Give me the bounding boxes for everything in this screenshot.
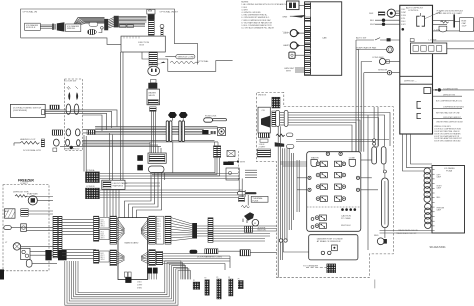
fuse F2 capsule: [238, 191, 246, 195]
svg-text:2 WHT: 2 WHT: [401, 12, 406, 14]
relay K4: [335, 172, 346, 177]
relay K6: [335, 184, 346, 189]
door harness connectors: [205, 249, 218, 254]
relay K2: [335, 161, 346, 166]
capsule pair row1: [66, 104, 71, 114]
splice dot WHT: [382, 23, 385, 26]
svg-text:TO ICEMAKER: TO ICEMAKER: [303, 265, 318, 268]
defrost control board (top right): [356, 5, 474, 142]
svg-text:WHT 2: WHT 2: [101, 255, 105, 257]
svg-text:RIGHT: RIGHT: [437, 186, 442, 188]
wire fan J2: [117, 218, 125, 241]
hex stubs and drop wire: [171, 118, 173, 121]
svg-text:COND FAN: COND FAN: [372, 56, 384, 59]
svg-text:OPTIONAL I/M KIT: OPTIONAL I/M KIT: [160, 10, 179, 13]
freezer wires to strips: [11, 197, 57, 264]
svg-text:7. BRN COMPRESSOR RUN CAP: 7. BRN COMPRESSOR RUN CAP: [241, 19, 271, 22]
thermal fuse box: [251, 196, 268, 202]
svg-text:BOX: BOX: [140, 45, 145, 47]
svg-text:BLK 1: BLK 1: [101, 253, 105, 255]
pin connector mid: [214, 146, 217, 158]
connector header J1b: [165, 216, 171, 244]
short wires exiting left: [245, 170, 257, 177]
bottom connector blocks row: [193, 277, 243, 299]
svg-text:CIRCUIT AT DEFROST: CIRCUIT AT DEFROST: [443, 116, 461, 119]
svg-text:LEFT: LEFT: [437, 174, 441, 176]
bundle to second bar: [108, 17, 114, 28]
svg-text:BLU 6: BLU 6: [101, 233, 105, 235]
svg-text:COMPRESSOR RUN WDG: COMPRESSOR RUN WDG: [443, 107, 465, 109]
semicircle component: [379, 58, 385, 64]
svg-text:P5: P5: [238, 278, 240, 280]
relay K5: [316, 184, 327, 189]
connector: [21, 209, 29, 217]
svg-text:GRY 8: GRY 8: [101, 237, 105, 239]
mounting plate box: [66, 24, 81, 32]
band to main board: [62, 220, 96, 259]
notes list: [241, 2, 288, 33]
capsule below striped box: [149, 166, 165, 173]
svg-text:OPTIONAL: OPTIONAL: [198, 60, 210, 63]
air duct box hatched: [5, 209, 16, 218]
far right vertical strip: [208, 218, 213, 243]
wire drop c: [109, 133, 111, 180]
wire bundle band: [74, 18, 105, 25]
svg-text:ORN 7: ORN 7: [101, 235, 105, 237]
horizontal wire band center: [60, 127, 218, 147]
service cord capsule: [176, 55, 195, 59]
grommet label capsule on band: [89, 22, 98, 26]
pin blocks along left edge: [305, 3, 311, 74]
connector block: [239, 197, 245, 202]
svg-text:CAB: CAB: [322, 37, 327, 40]
svg-text:RED 3: RED 3: [157, 223, 161, 225]
svg-text:WHT: WHT: [370, 24, 376, 26]
lamp circle in box: [218, 128, 226, 136]
solenoid dark row + box: [223, 162, 234, 165]
run capacitor C1 box: [460, 18, 474, 32]
power cord striped: [149, 52, 157, 66]
svg-text:AIR: AIR: [5, 210, 9, 213]
svg-text:FRESH FOOD: FRESH FOOD: [65, 149, 80, 151]
svg-text:AUTO SW: AUTO SW: [356, 37, 367, 40]
wire riser b: [85, 136, 87, 172]
junction box: [121, 36, 165, 52]
lower striped box: [148, 153, 166, 163]
relay K7: [316, 196, 327, 201]
connector assembly above-left: [287, 1, 299, 10]
svg-text:DEF: DEF: [369, 13, 374, 15]
middle-left : door activated switch area: [10, 52, 123, 180]
svg-text:BLK: BLK: [370, 20, 375, 22]
twin pads bottom right: [147, 268, 152, 274]
svg-text:P2: P2: [205, 278, 207, 280]
svg-text:FREEZER: FREEZER: [18, 179, 34, 183]
ice maker module box: [25, 23, 41, 30]
light wedges: [68, 92, 70, 100]
svg-text:P1: P1: [193, 280, 195, 282]
junction dot: [70, 146, 73, 149]
keyhole lamp 1: [290, 29, 297, 36]
svg-text:RED 3: RED 3: [101, 224, 105, 226]
svg-text:CUBE: CUBE: [349, 158, 356, 160]
svg-text:DOOR ACTIVATED SWITCH: DOOR ACTIVATED SWITCH: [13, 106, 42, 109]
svg-text:SENSOR: SENSOR: [378, 70, 388, 72]
freezer lamp: [13, 243, 20, 250]
left lower group: [94, 250, 99, 263]
wire band from bar to plug area: [119, 16, 147, 26]
vertical bundle: [239, 176, 248, 205]
dark plug: [57, 22, 65, 31]
top circles: [326, 152, 329, 155]
cabinet harness box (tall): [282, 1, 341, 75]
svg-text:BLK 1: BLK 1: [101, 220, 105, 222]
capsule bottom: [26, 260, 32, 268]
leader line from note: [424, 12, 441, 20]
solenoid cap dark: [148, 83, 157, 89]
svg-text:PNK 9: PNK 9: [157, 238, 161, 240]
auger motor M1: [252, 219, 259, 226]
svg-text:YEL 5: YEL 5: [101, 231, 105, 233]
evap fan motor: [28, 196, 37, 205]
svg-text:CONN B: CONN B: [86, 186, 95, 188]
wire board to lid pin1: [411, 134, 433, 164]
relay contact sub-box: [411, 43, 447, 54]
svg-text:FUSE: FUSE: [252, 200, 258, 202]
freezer compartment: [3, 179, 57, 271]
wire band y139-147: [82, 139, 214, 141]
svg-text:GROUND: GROUND: [150, 64, 160, 66]
lower section circles: [341, 208, 356, 211]
small gray tick below border: [374, 280, 376, 289]
splice dot BLK: [382, 19, 385, 22]
fan to dark bar: [171, 218, 192, 241]
striped connector above wires: [50, 105, 59, 109]
wire board to lid pin2: [407, 134, 433, 168]
board pin dot: [402, 28, 405, 31]
relay K8: [335, 196, 346, 201]
svg-text:OPTIONAL I/M: OPTIONAL I/M: [23, 10, 38, 13]
center cluster: thermal fuse / auger motor: [197, 176, 268, 258]
connector assembly: [272, 111, 276, 126]
pinout label box J1: [156, 216, 163, 244]
pins below: [125, 142, 165, 218]
wires row1: [14, 52, 123, 180]
svg-text:YEL 5: YEL 5: [157, 228, 161, 230]
svg-text:ORN 7: ORN 7: [157, 233, 161, 235]
wire traced black: [380, 232, 433, 234]
left upper group: [94, 216, 99, 241]
resistor R2 zigzag: [441, 21, 449, 23]
svg-text:2 WHT: 2 WHT: [259, 146, 266, 148]
dark hex grommet 2: [179, 112, 188, 118]
vertical bundle down to board: [104, 189, 119, 217]
cup symbols: [311, 160, 317, 167]
svg-text:VALVE: VALVE: [148, 94, 155, 97]
ground arrow: [160, 62, 166, 64]
defrost stat: [21, 224, 27, 232]
keyhole lamp 2: [290, 42, 297, 49]
door switch box: [21, 248, 30, 259]
wire trio: [40, 25, 52, 28]
fan circle pair: [387, 46, 394, 53]
fuse dark capsule: [190, 250, 198, 254]
cable down: [152, 111, 156, 153]
side connector circles: [308, 176, 360, 191]
svg-text:RED: RED: [374, 235, 379, 237]
pin ticks: [432, 170, 435, 231]
lid panel pcba: [396, 166, 464, 250]
svg-text:GRN 4: GRN 4: [101, 259, 105, 261]
resistor zigzag: [241, 205, 250, 208]
inner wire column: [278, 126, 299, 277]
svg-text:MODULE: MODULE: [26, 27, 36, 29]
wire drop to dot pair: [373, 107, 375, 139]
svg-text:AT REAR OF FREEZER: AT REAR OF FREEZER: [317, 240, 341, 243]
relay bracket top: [417, 16, 425, 26]
main board: [94, 216, 214, 289]
svg-text:WHT NEUTRAL SIDE OF LINE: WHT NEUTRAL SIDE OF LINE: [436, 112, 460, 115]
wire drop from junction box a: [120, 52, 122, 180]
door harness connector 2: [240, 250, 250, 256]
svg-text:(DISPENSER): (DISPENSER): [13, 110, 27, 112]
plug striped body: [148, 20, 154, 36]
small rects above junction box: [120, 24, 127, 27]
wire band y126-135: [95, 126, 217, 128]
svg-text:LAMP: LAMP: [283, 44, 289, 47]
compressor sub-box: [309, 235, 358, 260]
switch square: [289, 52, 295, 58]
svg-text:15uF: 15uF: [462, 26, 468, 28]
plug dark cap: [148, 14, 155, 20]
svg-text:BLK COMPRESSOR RELAY COIL: BLK COMPRESSOR RELAY COIL: [436, 100, 462, 103]
relay box side links: [283, 147, 385, 260]
traced labels: [396, 229, 418, 235]
svg-text:WHT: WHT: [286, 70, 292, 72]
svg-text:I/M BOX: I/M BOX: [258, 95, 267, 97]
central water valve column: [125, 79, 167, 217]
svg-text:WHT 2: WHT 2: [101, 222, 105, 224]
fresh food dashed box: [65, 79, 83, 151]
svg-text:WHT 2: WHT 2: [157, 221, 161, 223]
green wire arrow: [290, 15, 306, 18]
svg-text:WHT BLK: WHT BLK: [341, 225, 351, 227]
svg-text:FUSE LINK: FUSE LINK: [205, 116, 217, 118]
harness connector w/ text: [102, 180, 125, 189]
pins below CB: [259, 133, 270, 138]
svg-text:HARNESS: HARNESS: [113, 184, 124, 187]
left pair connectors: [279, 239, 282, 242]
ff dashed divider: [237, 151, 239, 181]
auger motor connector: [245, 226, 253, 232]
grommet oval hatched: [87, 29, 96, 34]
row3: ptc starter chain: [20, 141, 39, 144]
svg-text:DOOR SEAL HTR: DOOR SEAL HTR: [23, 149, 41, 152]
connector J2 header: [110, 216, 117, 244]
door activated switch box: [10, 104, 45, 117]
svg-text:10. GRY AUX ICEMAKER FILL VALV: 10. GRY AUX ICEMAKER FILL VALVE: [241, 27, 274, 30]
switch row: [356, 39, 374, 41]
grid connectors upper-left of main board: [86, 169, 245, 217]
small crossed box: [227, 151, 235, 157]
svg-text:WIRING: WIRING: [67, 28, 75, 30]
svg-text:GRN: GRN: [282, 16, 287, 18]
left side components: [387, 9, 395, 17]
right upper group: [141, 218, 149, 241]
wall plug oval: [148, 66, 160, 75]
heater + small parts: [276, 134, 285, 136]
auger motor switch: [244, 212, 254, 220]
svg-text:WTR: WTR: [240, 162, 245, 164]
buzzer: [124, 272, 127, 277]
CB box with cone: [258, 107, 270, 133]
svg-text:BLU 6: BLU 6: [157, 231, 161, 233]
connector bars pairs on band: [166, 121, 168, 142]
svg-text:LAMP: LAMP: [283, 32, 289, 35]
svg-text:P4: P4: [228, 277, 230, 279]
svg-text:L1 LINE: L1 LINE: [429, 39, 437, 41]
connector pair: [52, 24, 54, 30]
svg-text:M: M: [254, 223, 256, 225]
section border: optional ice maker (top-left): [21, 9, 198, 65]
svg-text:PC CASE: PC CASE: [341, 217, 351, 220]
svg-text:P3: P3: [216, 277, 218, 279]
svg-text:3 ORG: 3 ORG: [401, 15, 407, 17]
bent wire w/ dot: [99, 29, 102, 32]
thermostat capsule: [4, 226, 12, 230]
svg-text:4 YEL: 4 YEL: [401, 18, 405, 20]
freezer harness strips: [45, 216, 96, 260]
svg-text:SD-242LT2001: SD-242LT2001: [430, 246, 447, 249]
wire riser a: [83, 135, 85, 172]
wire drop from junction box b: [122, 52, 124, 180]
connector dot: [383, 170, 386, 173]
fuse F2 pin: [246, 192, 257, 194]
svg-text:GRN 4: GRN 4: [101, 226, 105, 228]
svg-text:EVAP FAN: EVAP FAN: [27, 193, 38, 196]
relay K9: [315, 215, 326, 220]
second dark bar: [114, 16, 119, 28]
wire drop d: [112, 135, 114, 181]
svg-text:BOARD SEE NOTE 4 OF CHART: BOARD SEE NOTE 4 OF CHART: [436, 12, 461, 15]
water valve box: [147, 89, 160, 105]
wire drop to capsule: [374, 107, 378, 147]
svg-text:CONN A: CONN A: [86, 169, 95, 172]
svg-text:ORN HTR FEED DEFROST MODE: ORN HTR FEED DEFROST MODE: [436, 122, 464, 124]
svg-text:DEFROST RTN: DEFROST RTN: [443, 95, 456, 97]
right lower group: [141, 252, 149, 265]
svg-text:HEATER LOOP: HEATER LOOP: [20, 138, 36, 141]
ground zigzag: [170, 61, 199, 64]
svg-text:PCBA: PCBA: [446, 170, 452, 173]
dark blobs left of striped box: [137, 155, 143, 161]
bottom-left page mark: [0, 269, 4, 279]
dispenser panel dashed border: [245, 92, 393, 277]
small circle: [387, 71, 391, 75]
svg-text:FREEZER: FREEZER: [437, 208, 445, 210]
relay K3: [316, 172, 327, 177]
dispenser relay board: [307, 152, 361, 232]
svg-text:DOOR SW: DOOR SW: [66, 81, 78, 83]
row2 components: [52, 130, 62, 135]
nested wire loops bottom: [65, 261, 191, 305]
svg-text:WATER: WATER: [311, 157, 319, 160]
svg-text:1. ALL WIRING SHOWN WITH DOOR: 1. ALL WIRING SHOWN WITH DOOR OPEN AND N…: [241, 3, 288, 6]
dark blob: [202, 130, 208, 134]
pin labels: [401, 9, 407, 26]
svg-text:SERVICE CORD: SERVICE CORD: [178, 56, 195, 58]
dark hex grommet 1: [168, 112, 177, 118]
wires right of grid conns: [99, 174, 244, 198]
terminal grid: [272, 97, 280, 108]
middle cluster: grommets, fuse, ballast: [166, 112, 245, 181]
verticals from control board components: [356, 40, 432, 233]
relay K1: [316, 161, 327, 166]
svg-text:6 B W GRN CHASSIS GROUND: 6 B W GRN CHASSIS GROUND: [434, 140, 461, 143]
relay K10: [315, 223, 326, 228]
wire traced white: [380, 230, 433, 232]
svg-text:6. ORN DEFROST HEATER N.O.: 6. ORN DEFROST HEATER N.O.: [241, 16, 270, 19]
terminal T1: [321, 251, 324, 254]
motor component bottom: [377, 238, 384, 245]
terminal T2: [328, 251, 331, 254]
fuse capsule + pin: [204, 118, 213, 122]
svg-text:BELL: BELL: [437, 197, 441, 199]
svg-text:9. BLU CONDENSER FAN MOTOR: 9. BLU CONDENSER FAN MOTOR: [241, 24, 272, 27]
legend text block: [434, 126, 462, 142]
svg-text:8. YEL EVAPORATOR FAN MOTOR: 8. YEL EVAPORATOR FAN MOTOR: [241, 21, 272, 24]
junction dot: [435, 89, 437, 91]
svg-text:GRY 8: GRY 8: [157, 236, 161, 238]
small switch block: [53, 148, 57, 152]
svg-text:EVAPORATOR FAN: EVAPORATOR FAN: [357, 46, 377, 49]
right-side top wiring: [433, 21, 474, 49]
svg-text:GRN 4: GRN 4: [157, 226, 161, 228]
fan wires right of assembly, nested turns: [288, 113, 390, 251]
bolt: [160, 24, 164, 28]
lower brackets: [417, 101, 421, 118]
capacitor plate bar: [453, 14, 455, 27]
svg-text:CONTROL: CONTROL: [408, 10, 419, 12]
lower relay square: [424, 88, 431, 94]
wires upper center heading to panel: [152, 158, 307, 271]
main plug top connector: [147, 9, 155, 14]
svg-text:CB: CB: [262, 110, 266, 112]
dark vertical connector bar: [104, 19, 108, 30]
arrow line w/ dot: [228, 161, 237, 163]
svg-text:TO DEFROST HTR: TO DEFROST HTR: [443, 88, 459, 90]
svg-text:DEFROST—: DEFROST—: [404, 81, 417, 83]
svg-text:3 RED: 3 RED: [137, 287, 143, 289]
svg-text:RED 3: RED 3: [101, 257, 105, 259]
labels below: [137, 281, 143, 289]
svg-text:BLK 1: BLK 1: [157, 218, 161, 220]
svg-text:MAIN BOARD: MAIN BOARD: [125, 242, 139, 245]
icemaker option connector: [303, 264, 336, 273]
right capsules: [279, 139, 388, 288]
small block below: [150, 107, 157, 111]
right-side lower wires + labels: [433, 90, 474, 119]
svg-text:2 WHT: 2 WHT: [137, 284, 142, 286]
overload protector: [439, 26, 447, 32]
coil chains: [424, 168, 431, 229]
